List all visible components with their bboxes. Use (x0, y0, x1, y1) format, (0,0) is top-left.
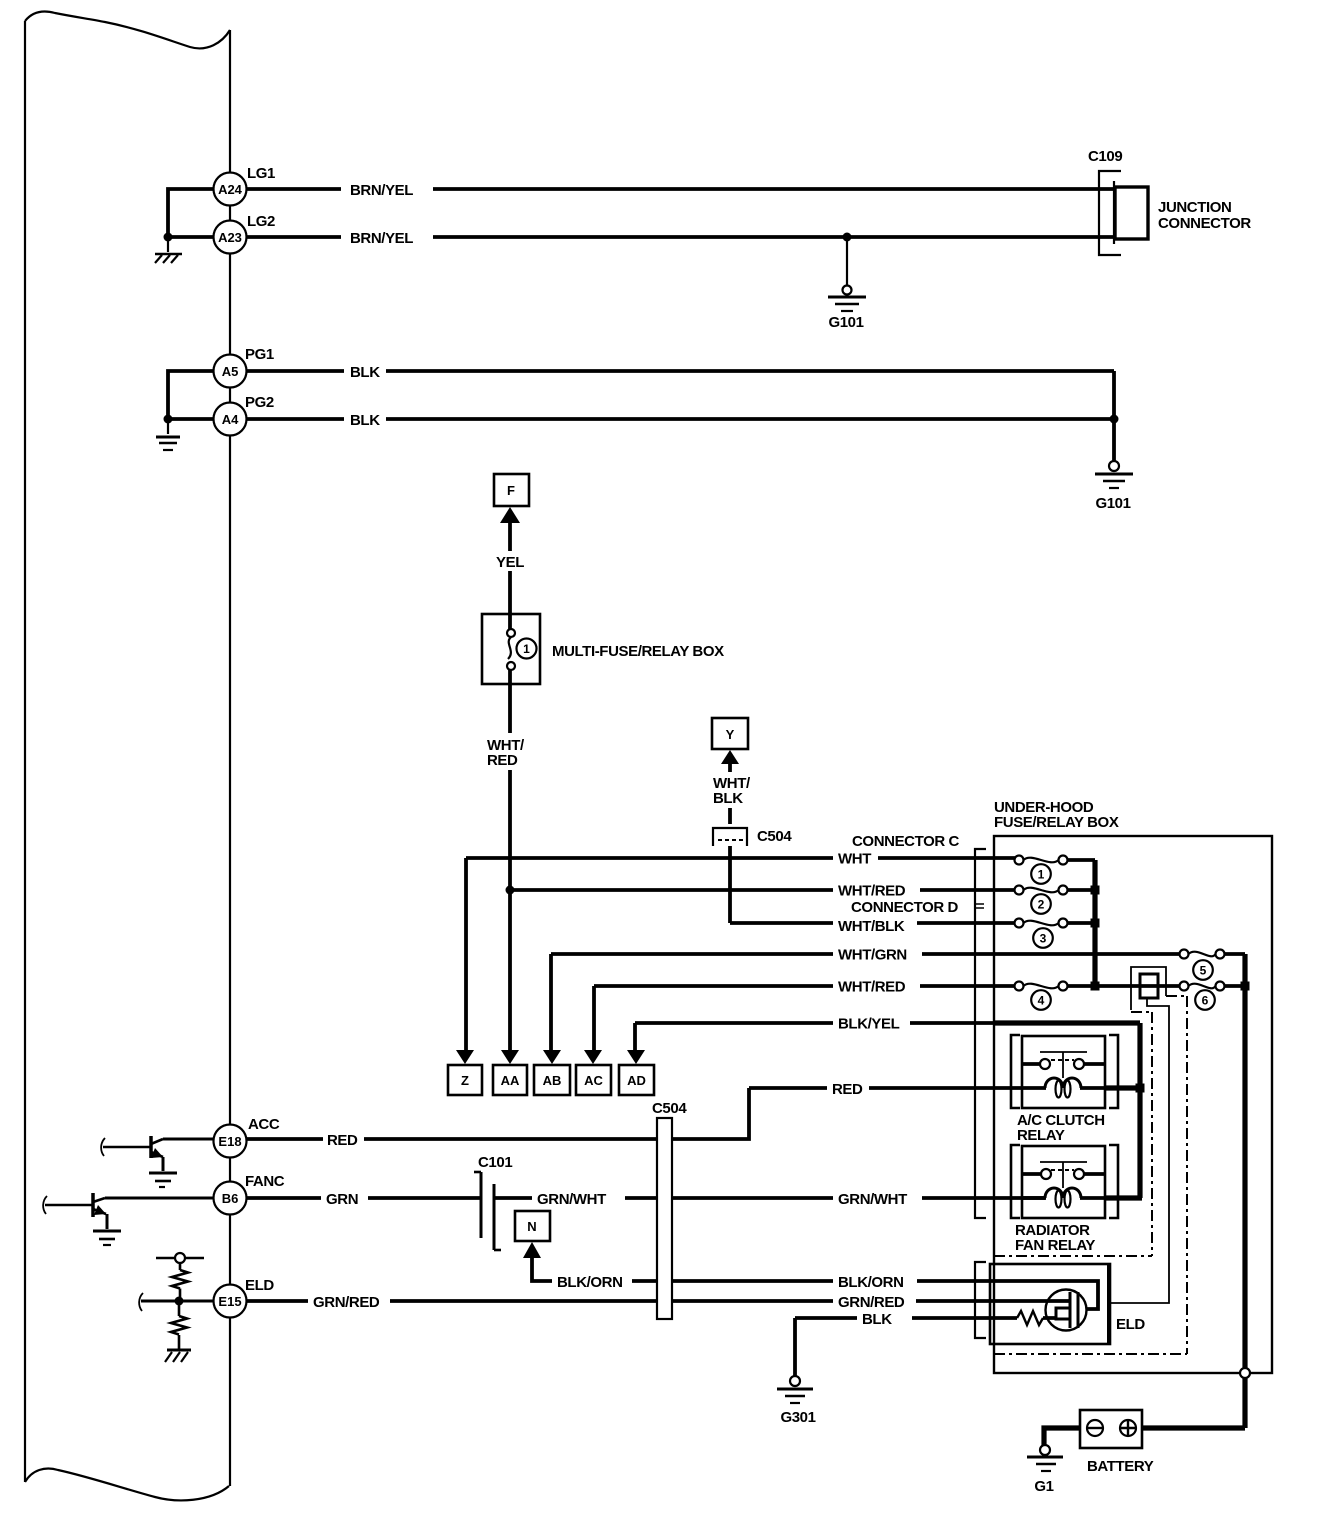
svg-text:JUNCTION: JUNCTION (1158, 199, 1231, 216)
svg-text:GRN: GRN (326, 1191, 358, 1208)
svg-text:YEL: YEL (496, 554, 524, 571)
svg-text:BLK/ORN: BLK/ORN (838, 1274, 904, 1291)
svg-text:FAN RELAY: FAN RELAY (1015, 1237, 1095, 1254)
svg-text:ACC: ACC (248, 1116, 280, 1133)
svg-text:BRN/YEL: BRN/YEL (350, 182, 413, 199)
svg-text:E15: E15 (218, 1294, 241, 1309)
svg-text:RELAY: RELAY (1017, 1127, 1065, 1144)
svg-text:AA: AA (501, 1073, 520, 1088)
svg-text:3: 3 (1040, 932, 1047, 946)
svg-text:GRN/WHT: GRN/WHT (838, 1191, 907, 1208)
svg-text:RED: RED (327, 1132, 358, 1149)
svg-text:LG1: LG1 (247, 165, 275, 182)
svg-text:C504: C504 (757, 828, 792, 845)
svg-text:CONNECTOR C: CONNECTOR C (852, 833, 960, 850)
svg-text:AB: AB (543, 1073, 562, 1088)
svg-text:G101: G101 (828, 314, 863, 331)
svg-text:A5: A5 (222, 364, 239, 379)
svg-text:G301: G301 (780, 1409, 815, 1426)
svg-text:GRN/WHT: GRN/WHT (537, 1191, 606, 1208)
svg-text:1: 1 (1038, 868, 1045, 882)
svg-text:A4: A4 (222, 412, 239, 427)
svg-text:A23: A23 (218, 230, 242, 245)
svg-text:Y: Y (726, 727, 735, 742)
svg-text:BRN/YEL: BRN/YEL (350, 230, 413, 247)
svg-text:BATTERY: BATTERY (1087, 1458, 1154, 1475)
svg-text:1: 1 (523, 642, 530, 656)
svg-text:RED: RED (832, 1081, 863, 1098)
svg-text:WHT/RED: WHT/RED (838, 883, 906, 900)
svg-text:LG2: LG2 (247, 213, 275, 230)
svg-text:PG1: PG1 (245, 346, 274, 363)
svg-text:E18: E18 (218, 1134, 241, 1149)
svg-text:N: N (527, 1219, 536, 1234)
svg-text:FANC: FANC (245, 1173, 285, 1190)
svg-text:ELD: ELD (1116, 1316, 1145, 1333)
svg-text:BLK: BLK (350, 412, 380, 429)
svg-text:WHT: WHT (838, 851, 871, 868)
svg-text:Z: Z (461, 1073, 469, 1088)
svg-text:RED: RED (487, 752, 518, 769)
svg-text:CONNECTOR D: CONNECTOR D (851, 899, 959, 916)
svg-text:G1: G1 (1034, 1478, 1053, 1495)
svg-text:6: 6 (1202, 994, 1209, 1008)
svg-text:WHT/GRN: WHT/GRN (838, 947, 907, 964)
svg-text:F: F (507, 483, 515, 498)
svg-text:G101: G101 (1095, 495, 1130, 512)
svg-text:GRN/RED: GRN/RED (313, 1294, 380, 1311)
svg-text:AD: AD (627, 1073, 646, 1088)
svg-text:C109: C109 (1088, 148, 1122, 165)
svg-text:AC: AC (584, 1073, 603, 1088)
svg-text:BLK/YEL: BLK/YEL (838, 1016, 900, 1033)
svg-text:FUSE/RELAY BOX: FUSE/RELAY BOX (994, 814, 1119, 831)
svg-text:WHT/RED: WHT/RED (838, 979, 906, 996)
svg-text:5: 5 (1200, 964, 1207, 978)
svg-text:BLK: BLK (862, 1311, 892, 1328)
svg-text:BLK/ORN: BLK/ORN (557, 1274, 623, 1291)
svg-text:MULTI-FUSE/RELAY BOX: MULTI-FUSE/RELAY BOX (552, 643, 724, 660)
svg-text:CONNECTOR: CONNECTOR (1158, 215, 1251, 232)
svg-text:C101: C101 (478, 1154, 512, 1171)
svg-text:2: 2 (1038, 898, 1045, 912)
svg-text:BLK: BLK (350, 364, 380, 381)
svg-text:PG2: PG2 (245, 394, 274, 411)
svg-text:C504: C504 (652, 1100, 687, 1117)
svg-text:BLK: BLK (713, 790, 743, 807)
svg-text:B6: B6 (222, 1191, 239, 1206)
svg-text:GRN/RED: GRN/RED (838, 1294, 905, 1311)
svg-text:WHT/BLK: WHT/BLK (838, 918, 905, 935)
svg-text:ELD: ELD (245, 1277, 274, 1294)
svg-text:4: 4 (1038, 994, 1045, 1008)
svg-text:A24: A24 (218, 182, 243, 197)
